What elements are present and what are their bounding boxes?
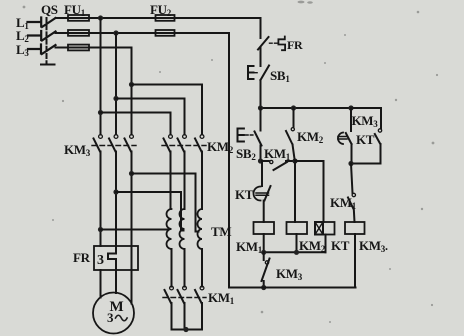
svg-text:KM1: KM1 [208,290,235,306]
node L2 label [16,28,29,44]
contact KM3 self-hold [351,108,382,164]
wire phase3 drop [131,48,133,135]
contactor KM3 linkage dashed [92,145,136,147]
wire phase line 1 [56,17,261,19]
coil KM1 label [236,239,263,255]
node L3 label [16,42,29,58]
switch QS pole 2 [28,31,56,41]
wire motor leads to M [101,270,132,304]
contact KM3 self-hold label [352,113,379,129]
transformer TM winding 3 [198,209,203,249]
fuse FU1 element 1 [68,15,89,21]
wire crossover phase1 to KM2 pole1 [101,113,171,135]
contactor KM3 pole 3 [125,135,134,246]
switch QS pole 1 [28,18,56,28]
svg-text:KM1: KM1 [236,239,263,255]
wire motor lead3 through FR [131,246,133,270]
svg-text:3: 3 [107,310,114,325]
junction dot tap3 on motor lead3 [129,171,134,176]
wire phase line 3 [56,47,132,49]
junction dot rail at SB2 [258,105,263,110]
svg-text:KM3.: KM3. [359,238,388,254]
svg-text:KT: KT [235,187,254,202]
contact KM3 interlock label [276,266,303,282]
contact KT branch label [356,132,375,147]
junction dot parallel bottom [348,161,353,166]
svg-text:KM2: KM2 [297,129,324,145]
contactor KM2 pole 1 [164,135,173,209]
contactor KM2 linkage dashed [162,145,206,147]
svg-text:KM1: KM1 [264,146,291,162]
fuse FU1 element 2 [68,30,89,36]
button SB2 label [236,146,256,162]
wire bottom rail [229,287,356,289]
button SB1 label [270,68,290,84]
transformer TM winding 1 [167,209,172,249]
wire crossover phase2 to KM2 pole2 [116,99,185,135]
thermal relay FR count 3 [97,253,104,268]
svg-text:KM3: KM3 [276,266,303,282]
contactor KM1 pole 3 [195,286,204,329]
svg-text:QS: QS [41,2,58,17]
contact KM2 aux [286,108,295,161]
fuse FU1 element 3 [68,45,89,51]
contact KM1 aux for KM3 [348,164,355,223]
contact FR label [287,38,303,52]
wire tap2 to TM coil2 [116,192,184,231]
button SB1 stop [248,66,269,109]
wire tap1 to TM coil1 [101,229,168,231]
fuse FU2 element 1 [156,15,175,21]
transformer TM label [211,224,231,239]
contact KM1 self-hold label [264,146,291,162]
svg-text:SB2: SB2 [236,146,256,162]
switch QS linkage dashed bar [41,18,55,65]
svg-text:SB1: SB1 [270,68,290,84]
junction dot phase1 [98,15,103,20]
svg-text:FR: FR [287,38,303,52]
contact KM3 interlock NC [262,252,270,287]
contactor KM3 label [64,142,91,158]
thermal relay FR heater element [108,246,116,270]
contact KT delayed NC [254,161,271,222]
wire control left rail [228,33,230,288]
coil KT label [331,238,350,253]
coil KM3 [345,222,365,288]
coil KM3 label [359,238,388,254]
coil KT crossed box [315,222,335,252]
wire coil bottoms link [264,251,326,253]
motor M [93,293,134,334]
junction dot KM2 coil bottom [294,250,299,255]
contact KT delayed label [235,187,254,202]
contactor KM2 pole 3 [195,135,204,209]
svg-text:FR: FR [73,250,91,265]
coil KM2 [287,161,308,252]
svg-text:KT: KT [356,132,375,147]
contactor KM2 pole 2 [178,135,187,209]
thermal relay FR label [73,250,91,265]
svg-text:KT: KT [331,238,350,253]
wire phase1 drop [100,18,102,135]
junction dot phase3 to KM2 [129,82,134,87]
switch QS pole 3 [28,45,56,55]
wire tap3 to TM coil3 [132,174,199,232]
svg-text:KM3: KM3 [64,142,91,158]
wire phase line 2 [56,32,230,34]
junction dot node C [292,158,297,163]
contactor KM3 pole 1 [94,135,103,246]
contactor KM1 pole 2 [178,286,187,329]
junction dot tap1 on motor lead1 [98,227,103,232]
contact FR normally-closed [258,37,285,67]
button SB2 start [238,108,262,161]
switch QS label [41,2,58,17]
junction dot star point [183,327,188,332]
fuse FU2 element 2 [156,30,175,36]
junction dot rail at KM2 branch [291,105,296,110]
contactor KM1 linkage dashed [163,297,206,299]
contactor KM2 label [207,139,234,155]
svg-text:KM1: KM1 [330,195,357,211]
junction dot phase1 to KM2 [98,110,103,115]
wire node C to KT coil [295,161,324,222]
contactor KM1 pole 1 [165,286,174,329]
wire TM winding bottoms [172,249,203,287]
junction dot KM1 coil bottom [261,250,266,255]
fuse FU2 label [150,2,172,18]
svg-text:3: 3 [97,253,104,268]
wire crossover phase3 to KM2 pole3 [132,85,203,135]
junction dot rail at KT KM3 branch [348,105,353,110]
junction dot node B [258,158,263,163]
coil KM1 [254,222,275,252]
wire control top rail [261,107,382,109]
junction dot tap2 on motor lead2 [113,189,118,194]
wire control feed from line1 [260,18,262,38]
contact KM1 self-hold [261,160,296,170]
coil KM2 label [299,238,326,254]
motor M label [107,299,127,325]
contactor KM1 power label [208,290,235,306]
junction dot phase2 to KM2 [113,96,118,101]
svg-text:KM3: KM3 [352,113,379,129]
fuse FU1 label [64,2,86,18]
junction dot bottom rail [261,285,266,290]
contact KT delayed closing branch [338,108,352,164]
contactor KM3 pole 2 [109,135,118,246]
wire star bar [172,329,203,331]
wire phase2 drop [115,33,117,135]
junction dot phase2 [113,30,118,35]
contact KM2 aux label [297,129,324,145]
node L1 label [16,15,29,31]
thermal relay FR box [94,246,138,270]
contact KM1 aux label [330,195,357,211]
transformer TM winding 2 [180,209,185,249]
